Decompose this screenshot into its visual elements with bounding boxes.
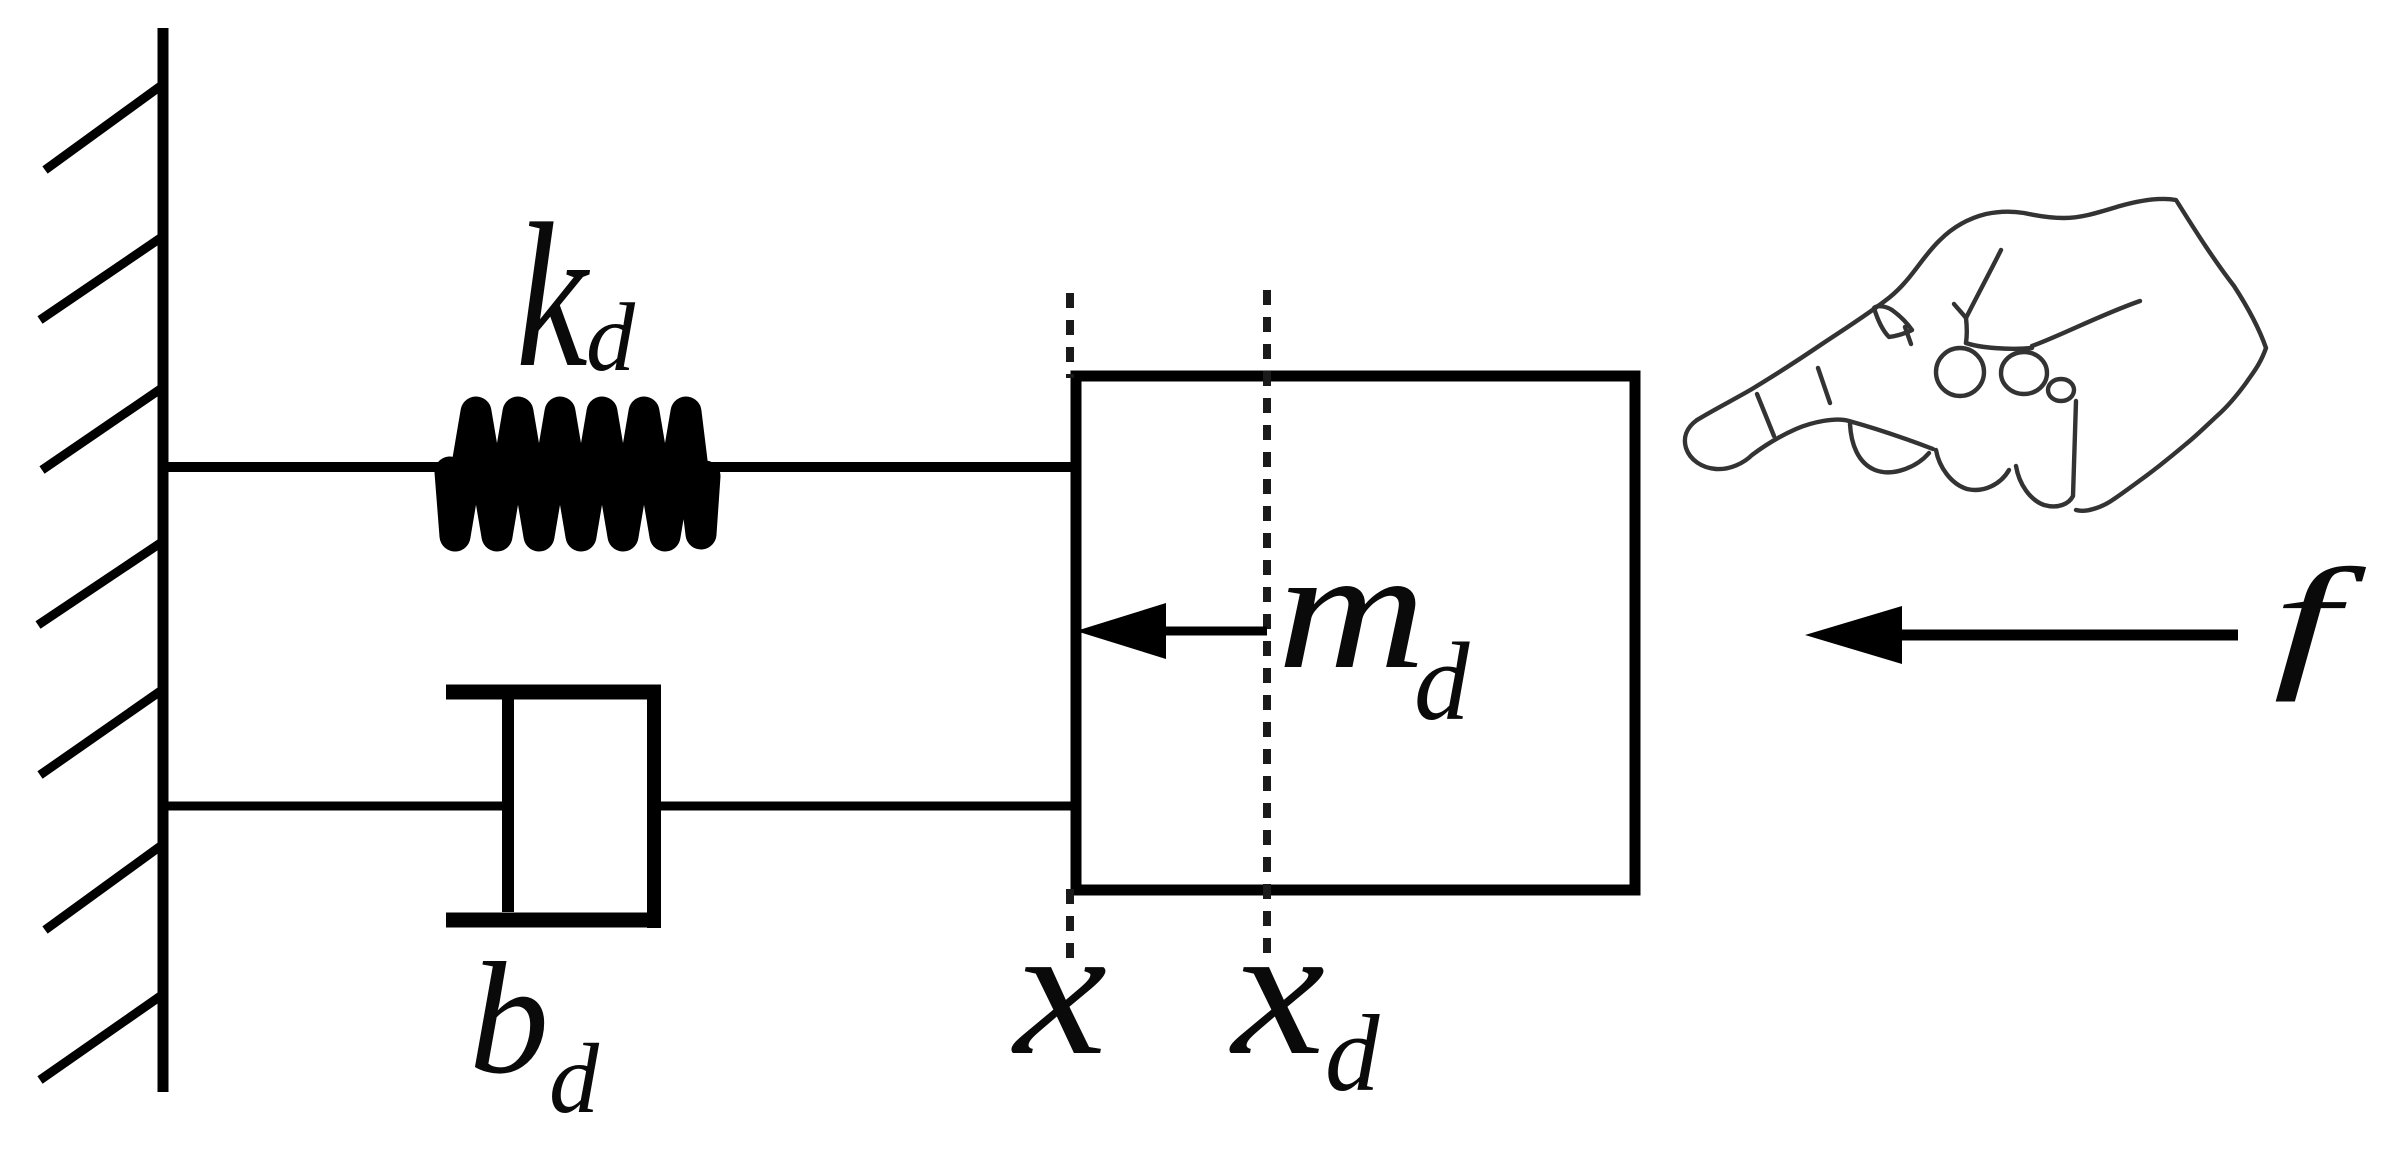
svg-text:k: k — [516, 182, 591, 411]
svg-text:x: x — [1229, 886, 1325, 1093]
svg-text:d: d — [1325, 993, 1380, 1114]
svg-text:d: d — [1414, 621, 1470, 744]
svg-text:x: x — [1011, 886, 1107, 1093]
svg-text:d: d — [586, 284, 636, 392]
svg-text:d: d — [549, 1023, 600, 1134]
svg-text:b: b — [469, 929, 549, 1107]
svg-text:m: m — [1277, 515, 1426, 705]
